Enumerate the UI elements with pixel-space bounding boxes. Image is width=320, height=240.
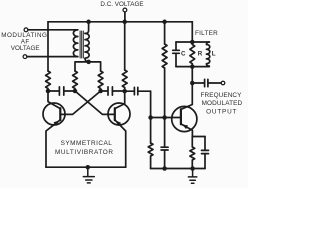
label SYMMETRICAL MULTIVIBRATOR bbox=[55, 140, 114, 156]
label MODULATING AF VOLTAGE bbox=[1, 32, 47, 52]
capacitor C3 (coupling to output stage) bbox=[125, 87, 151, 94]
wire: secondary top to rail bbox=[85, 22, 89, 34]
resistor R3 (Q1 base) bbox=[98, 71, 103, 91]
transistor Q2 bbox=[108, 103, 130, 125]
resistor R4 (Q2 collector load) bbox=[122, 70, 127, 91]
svg-text:OUTPUT: OUTPUT bbox=[206, 109, 237, 116]
transformer T1 core bbox=[80, 31, 83, 58]
resistor R7 (filter R) bbox=[190, 42, 195, 67]
filter: feed from rail bbox=[191, 22, 193, 42]
ground (output stage) bbox=[188, 169, 196, 184]
wire: bias resistor to base node bbox=[164, 68, 166, 118]
terminal: FM output bbox=[221, 81, 225, 85]
wire: multivibrator ground rail bbox=[46, 166, 126, 168]
svg-text:MULTIVIBRATOR: MULTIVIBRATOR bbox=[55, 149, 114, 156]
node: base node A bbox=[148, 115, 153, 120]
resistor R5 (bias from rail) bbox=[164, 22, 166, 44]
wire: D.C. supply top rail bbox=[48, 21, 192, 23]
svg-text:MODULATED: MODULATED bbox=[202, 100, 243, 107]
node: ground 2 junction bbox=[190, 166, 195, 171]
node: Q2 base resistor bottom bbox=[73, 89, 78, 94]
filter bottom bar bbox=[176, 66, 209, 68]
terminal: AF input bottom bbox=[23, 55, 27, 59]
transformer T1 secondary winding bbox=[85, 33, 89, 58]
wire: coupling cap down to Q3 base bbox=[150, 91, 152, 117]
capacitor C2 (Q2 collector to Q1 base) bbox=[101, 87, 125, 95]
capacitor C5 (filter C) bbox=[173, 42, 180, 67]
node: rail junction at Q2 collector resistor bbox=[122, 20, 127, 25]
label FREQUENCY MODULATED OUTPUT bbox=[200, 92, 242, 116]
filter top bar bbox=[176, 41, 209, 43]
svg-text:C: C bbox=[181, 50, 186, 57]
wire: right collector drop from rail bbox=[124, 22, 126, 70]
node: rail junction at bias resistor bbox=[162, 20, 167, 25]
resistor R2 (Q2 base) bbox=[73, 71, 78, 91]
label C R L bbox=[181, 50, 216, 57]
capacitor C6 (output coupling) bbox=[192, 79, 221, 86]
node: Q1 base resistor bottom bbox=[98, 89, 103, 94]
svg-text:FREQUENCY: FREQUENCY bbox=[200, 92, 242, 99]
node: C4 ground bbox=[162, 166, 167, 171]
node: filter top bbox=[190, 40, 195, 45]
node: Q2 collector bbox=[122, 89, 127, 94]
node: secondary bottom junction bbox=[86, 60, 91, 65]
resistor R6 (base to ground) bbox=[150, 118, 152, 144]
label D.C. VOLTAGE bbox=[100, 1, 143, 8]
svg-text:D.C. VOLTAGE: D.C. VOLTAGE bbox=[100, 1, 143, 8]
node: Q1 collector bbox=[46, 89, 51, 94]
svg-text:SYMMETRICAL: SYMMETRICAL bbox=[61, 140, 113, 147]
wire: cross-couple right to Q1 base bbox=[60, 91, 100, 114]
resistor R8 (emitter) bbox=[190, 137, 195, 169]
capacitor C7 (emitter bypass) bbox=[202, 137, 209, 169]
wire: left collector drop from rail bbox=[47, 22, 49, 71]
capacitor C4 (base bypass) bbox=[161, 118, 168, 169]
wire: base feed bar bbox=[75, 62, 101, 71]
inductor L1 (filter L) bbox=[206, 42, 209, 66]
wire: AF top lead to transformer primary bbox=[28, 29, 78, 31]
wire: AF bottom lead to transformer primary bbox=[27, 56, 78, 58]
node: ground stub junction bbox=[86, 165, 91, 170]
transistor Q3 bbox=[172, 106, 197, 131]
svg-text:R: R bbox=[198, 50, 203, 57]
node: rail junction at transformer secondary bbox=[86, 20, 91, 25]
resistor R1 (Q1 collector load) bbox=[46, 71, 51, 91]
wire: Q3 base line bbox=[151, 117, 181, 119]
wire: filter to Q3 collector bbox=[181, 67, 192, 110]
capacitor C1 (Q1 collector to Q2 base) bbox=[48, 87, 75, 95]
transistor Q1 bbox=[43, 103, 65, 125]
wire: output ground rail bbox=[151, 168, 205, 170]
node: filter bottom bbox=[190, 64, 195, 69]
node: output tap bbox=[190, 81, 195, 86]
terminal: AF input top bbox=[24, 28, 28, 32]
wire: emitter RC bar bbox=[192, 136, 205, 138]
node: base node B bbox=[162, 115, 167, 120]
svg-text:L: L bbox=[212, 50, 216, 57]
wire: cross-couple left to Q2 base bbox=[75, 91, 115, 114]
wire: secondary bottom to junction bbox=[85, 58, 89, 62]
terminal: D.C. voltage input bbox=[123, 8, 127, 12]
ground (multivibrator) bbox=[83, 167, 94, 183]
transformer T1 primary winding bbox=[73, 30, 77, 57]
label FILTER bbox=[195, 30, 218, 37]
svg-text:VOLTAGE: VOLTAGE bbox=[11, 45, 40, 52]
svg-text:FILTER: FILTER bbox=[195, 30, 218, 37]
wire: D.C. terminal to rail bbox=[124, 12, 126, 22]
